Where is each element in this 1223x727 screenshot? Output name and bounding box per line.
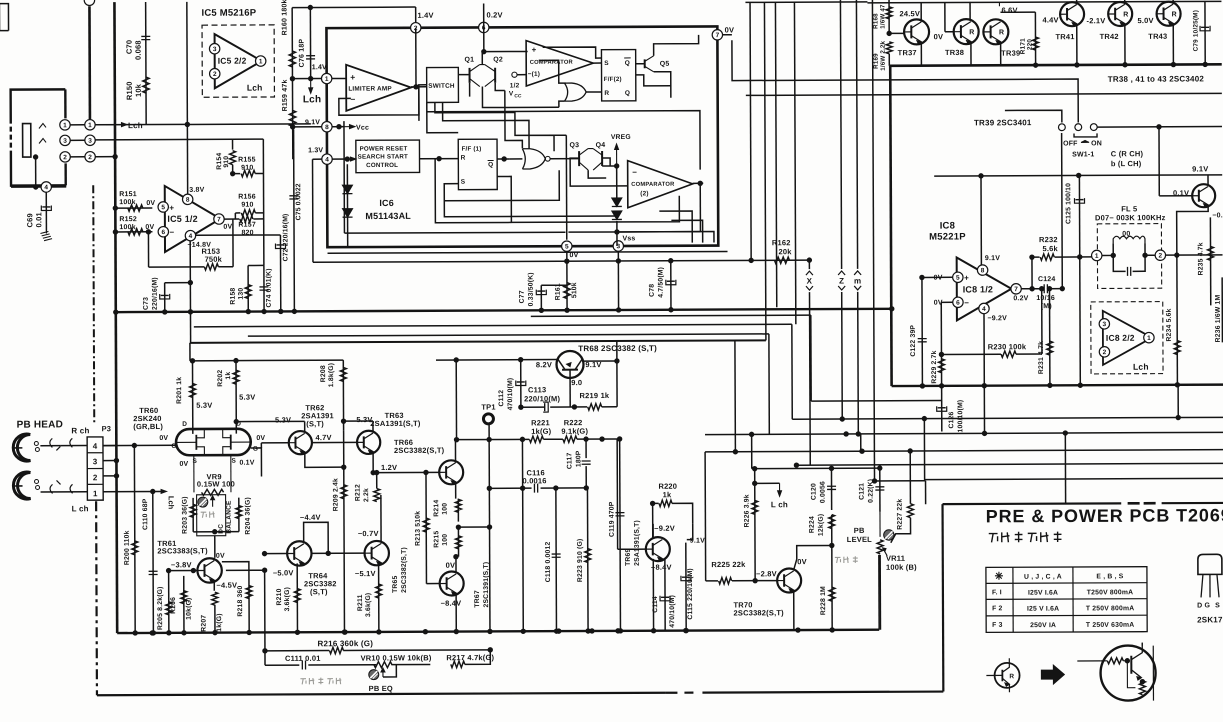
- svg-text:R154: R154: [216, 153, 223, 170]
- svg-text:00: 00: [1122, 231, 1130, 238]
- or gate: [564, 83, 586, 101]
- pin 1 conn: [85, 120, 95, 130]
- pot VR9: [193, 455, 195, 492]
- resistor R200 110k: [133, 445, 136, 632]
- svg-text:R: R: [1172, 11, 1177, 18]
- svg-text:−0.: −0.: [1212, 212, 1223, 219]
- wire thick supply rail: [889, 64, 1221, 65]
- svg-text:IC8: IC8: [940, 220, 955, 231]
- pin 1: [1144, 332, 1154, 342]
- wire: [1177, 385, 1179, 418]
- svg-text:−4.5V: −4.5V: [216, 581, 237, 590]
- diode pair pin4: [346, 164, 348, 247]
- transistor TR68: [556, 351, 583, 378]
- resistor R158 130: [248, 264, 264, 266]
- svg-text:R227 22k: R227 22k: [897, 499, 904, 530]
- svg-text:2: 2: [213, 71, 217, 78]
- resistor R215 100: [455, 536, 461, 549]
- svg-text:Q: Q: [625, 60, 630, 67]
- resistor R227 22k: [909, 451, 911, 504]
- svg-text:R158: R158: [230, 288, 237, 305]
- svg-text:F. I: F. I: [992, 589, 1002, 596]
- svg-text:20k: 20k: [779, 247, 793, 256]
- svg-text:2: 2: [1159, 253, 1163, 260]
- wire: [11, 186, 41, 188]
- pin 1 FL5: [1092, 250, 1102, 260]
- svg-text:VR10 0.15W 10k(B): VR10 0.15W 10k(B): [361, 653, 432, 662]
- capacitor C126 100/10(M): [941, 386, 943, 432]
- resistor R224 12k(G): [829, 515, 835, 529]
- wire pin7 out: [1021, 288, 1040, 290]
- wire TR61 collector emitter: [213, 558, 215, 561]
- wire: [70, 156, 85, 158]
- capacitor C112 470/10(M): [520, 360, 522, 407]
- wire b line: [732, 39, 1078, 124]
- svg-text:R205 8.2k(G): R205 8.2k(G): [157, 586, 164, 630]
- svg-text:4.7/50(M): 4.7/50(M): [658, 267, 665, 298]
- svg-text:250V IA: 250V IA: [1030, 622, 1056, 629]
- svg-text:5: 5: [565, 244, 569, 251]
- transistor TR39: [983, 19, 1008, 44]
- svg-text:(2): (2): [640, 190, 648, 197]
- transistor equivalence big: [1100, 645, 1155, 700]
- package 2SK17 drawing: [1198, 554, 1222, 574]
- pin 8: [980, 176, 982, 265]
- svg-text:1k(G): 1k(G): [531, 427, 552, 436]
- pin 6: [953, 297, 963, 307]
- svg-text:R212: R212: [355, 484, 362, 501]
- svg-text:1: 1: [325, 76, 329, 83]
- svg-text:R208: R208: [320, 365, 327, 382]
- svg-text:C124: C124: [1038, 276, 1056, 283]
- svg-text:R: R: [461, 155, 466, 162]
- net X line: [808, 260, 810, 269]
- wire 9.1V branch: [687, 524, 693, 540]
- transistor TR64: [287, 541, 312, 566]
- wire Q5 emitter: [654, 72, 671, 98]
- wire head row3: [95, 138, 232, 141]
- transistor TR61: [197, 558, 222, 583]
- svg-text:0V: 0V: [216, 553, 225, 560]
- svg-text:1.4V: 1.4V: [417, 11, 433, 20]
- svg-text:C70: C70: [125, 40, 134, 54]
- svg-text:220/10(M): 220/10(M): [524, 394, 560, 403]
- svg-text:1: 1: [1147, 335, 1151, 342]
- svg-text:R232: R232: [1039, 235, 1058, 244]
- wire TR69 base: [618, 548, 646, 550]
- pin 8: [322, 122, 332, 132]
- resistor R213 510k: [425, 472, 427, 583]
- svg-text:C122 39P: C122 39P: [910, 325, 917, 357]
- wire pin4 row: [332, 158, 348, 160]
- resistor R205 8.2k(G): [168, 571, 170, 633]
- svg-text:R228 1M: R228 1M: [820, 586, 827, 615]
- label pcb kana: [989, 533, 998, 535]
- svg-text:T 250V 630mA: T 250V 630mA: [1086, 622, 1135, 629]
- svg-text:100: 100: [442, 503, 449, 515]
- svg-text:Q2: Q2: [493, 56, 503, 63]
- diode pair comp2: [616, 166, 618, 198]
- wire prc to ff1: [420, 158, 459, 160]
- capacitor C79 10/25(M): [1204, 1, 1206, 64]
- svg-text:R229 2.7k: R229 2.7k: [931, 350, 938, 383]
- wire thick mid right: [892, 385, 1223, 386]
- svg-text:LIMITER AMP: LIMITER AMP: [348, 85, 392, 92]
- svg-text:Lch: Lch: [167, 496, 176, 510]
- svg-text:R201 1k: R201 1k: [176, 377, 183, 404]
- pin 4 head: [41, 182, 51, 192]
- svg-text:470/10(M): 470/10(M): [669, 595, 676, 628]
- wire pin4 drop: [983, 314, 986, 434]
- wire TR64-TR65 base link: [312, 552, 365, 554]
- capacitor C122 39P: [921, 277, 923, 385]
- pin 3: [1099, 319, 1109, 329]
- border right: [941, 504, 944, 691]
- svg-text:180P: 180P: [575, 450, 582, 467]
- svg-text:ON: ON: [1091, 140, 1102, 147]
- svg-text:C72 220/16(M): C72 220/16(M): [282, 213, 289, 261]
- svg-text:8.2V: 8.2V: [536, 360, 552, 369]
- svg-text:C69: C69: [25, 213, 34, 227]
- svg-text:−2.8V: −2.8V: [756, 569, 777, 578]
- resistor R235 4.7k: [1209, 217, 1211, 305]
- svg-text:1: 1: [63, 122, 67, 129]
- svg-text:3: 3: [63, 138, 67, 145]
- svg-text:C115 220/10(M): C115 220/10(M): [687, 568, 694, 620]
- svg-text:Q5: Q5: [660, 61, 670, 68]
- svg-text:R: R: [1009, 673, 1014, 680]
- svg-text:3: 3: [93, 457, 98, 466]
- svg-text:−: −: [169, 228, 174, 237]
- svg-text:2: 2: [88, 154, 92, 161]
- capacitor C70 0.068: [141, 35, 150, 37]
- svg-text:Q1: Q1: [464, 57, 474, 64]
- resistor R202 1k: [235, 361, 237, 434]
- svg-text:TR39: TR39: [1001, 49, 1020, 58]
- svg-text:(GR,BL): (GR,BL): [133, 422, 163, 431]
- svg-text:0.22(K): 0.22(K): [868, 479, 875, 503]
- resistor R159 47k: [289, 110, 295, 126]
- svg-text:TR39 2SC3401: TR39 2SC3401: [974, 118, 1032, 127]
- svg-text:TR41: TR41: [1055, 32, 1074, 41]
- svg-text:3: 3: [88, 138, 92, 145]
- svg-text:5: 5: [161, 204, 165, 211]
- svg-text:C119 470P: C119 470P: [609, 501, 616, 537]
- svg-text:R209 2.4k: R209 2.4k: [333, 478, 340, 511]
- IC6 internal mesh: [427, 102, 529, 149]
- svg-text:1.8k(G): 1.8k(G): [328, 363, 335, 387]
- svg-text:5.3V: 5.3V: [356, 415, 372, 424]
- svg-text:P3: P3: [102, 424, 112, 433]
- svg-text:4: 4: [325, 156, 329, 163]
- svg-text:1: 1: [93, 489, 98, 498]
- transistor TR38: [954, 19, 979, 44]
- svg-text:R168: R168: [872, 13, 879, 29]
- screw VR11: [884, 530, 894, 540]
- resistor R226 3.9k: [754, 469, 756, 581]
- svg-text:0V: 0V: [797, 557, 807, 566]
- head R: [13, 434, 30, 461]
- pin 2: [1099, 347, 1109, 357]
- svg-text:TR38 , 41 to 43 2SC3402: TR38 , 41 to 43 2SC3402: [1108, 74, 1205, 83]
- resistor R228 1M: [829, 587, 835, 601]
- wire R222 out corner: [616, 439, 618, 549]
- svg-text:R214: R214: [433, 500, 440, 517]
- wire TR61 base: [169, 570, 198, 572]
- svg-text:0.1V: 0.1V: [239, 460, 254, 467]
- svg-text:C (R CH): C (R CH): [1111, 149, 1144, 158]
- svg-text:R215: R215: [433, 531, 440, 548]
- wire R151 row: [115, 207, 152, 209]
- wire P3-1 out: [103, 490, 160, 492]
- svg-text:2SC3383(S,T): 2SC3383(S,T): [157, 546, 208, 555]
- wire: [411, 86, 427, 88]
- wire: [291, 8, 294, 160]
- svg-text:Lch: Lch: [128, 121, 143, 130]
- svg-text:0V: 0V: [223, 224, 232, 231]
- capacitor C118 0.0012: [555, 488, 558, 631]
- svg-text:R217 4.7k(G): R217 4.7k(G): [446, 653, 494, 662]
- label PB EQ: [300, 678, 306, 680]
- svg-text:C112: C112: [498, 390, 505, 407]
- capacitor C114 470/10(M): [664, 559, 666, 631]
- svg-text:2SC3382(S,T): 2SC3382(S,T): [401, 547, 408, 593]
- svg-text:R152: R152: [119, 216, 137, 223]
- svg-text:R235 4.7k: R235 4.7k: [1197, 242, 1204, 275]
- resistor R229 2.7k: [941, 301, 952, 303]
- svg-text:1.2V: 1.2V: [381, 463, 397, 472]
- svg-text:8: 8: [981, 267, 985, 274]
- head L: [13, 472, 30, 499]
- svg-text:CC: CC: [514, 93, 522, 99]
- svg-text:+: +: [350, 72, 355, 82]
- svg-text:C121: C121: [859, 483, 866, 500]
- capacitor C121 0.22(K): [879, 468, 881, 512]
- wire: [186, 2, 189, 125]
- wire or to ff2 R: [586, 91, 601, 93]
- resistor R154 910: [230, 151, 236, 165]
- wire TR67 emitter: [455, 593, 457, 631]
- svg-text:0V: 0V: [179, 461, 188, 468]
- border top: [943, 502, 1122, 505]
- svg-text:TR67: TR67: [474, 590, 481, 607]
- op-amp IC8 1/2: [957, 257, 1012, 320]
- svg-text:2SC3382(S,T): 2SC3382(S,T): [394, 446, 445, 455]
- svg-text:Q4: Q4: [596, 142, 606, 149]
- transistor equivalence small: [995, 663, 1020, 688]
- svg-text:+: +: [532, 45, 537, 54]
- wire switch to Q1: [458, 74, 468, 76]
- svg-text:R: R: [999, 29, 1004, 36]
- svg-text:Lch: Lch: [247, 83, 263, 93]
- svg-text:1.3V: 1.3V: [308, 147, 323, 154]
- capacitor C110 68P: [152, 492, 155, 633]
- pin 2 head: [60, 152, 70, 162]
- svg-text:PB EQ: PB EQ: [369, 684, 393, 693]
- svg-text:R231 4.7k: R231 4.7k: [1038, 341, 1045, 374]
- svg-text:R211: R211: [357, 594, 364, 611]
- wire Q5 collector: [654, 35, 699, 56]
- flip-flop F/F(2): [601, 50, 635, 101]
- wire: [1064, 433, 1066, 504]
- shield dash line: [93, 185, 94, 422]
- svg-text:9.0: 9.0: [571, 378, 582, 387]
- pin 3: [209, 44, 219, 54]
- svg-text:0V: 0V: [446, 561, 456, 570]
- pin 5: [953, 272, 963, 282]
- label DC balance: [201, 511, 207, 513]
- svg-text:4.7V: 4.7V: [316, 433, 332, 442]
- op-amp LIMITER AMP: [346, 64, 411, 110]
- balance box: [197, 495, 226, 536]
- svg-text:2SC3382(S,T): 2SC3382(S,T): [733, 608, 784, 617]
- screw VR10: [369, 670, 379, 680]
- svg-text:R156: R156: [238, 194, 256, 201]
- wire P3-3 out: [103, 460, 116, 462]
- svg-text:220: 220: [1027, 39, 1034, 51]
- wire: [1061, 133, 1064, 289]
- svg-text:R230 100k: R230 100k: [988, 342, 1027, 351]
- resistor R207 1k(G): [212, 592, 218, 605]
- pin 7: [1011, 284, 1021, 294]
- wire ladder: [232, 139, 234, 149]
- svg-text:7: 7: [716, 32, 720, 39]
- pin 4: [979, 303, 989, 313]
- wire R221 row: [455, 438, 529, 440]
- svg-text:100k: 100k: [119, 224, 135, 231]
- svg-text:R: R: [969, 29, 974, 36]
- resistor R152 100k: [128, 229, 143, 235]
- svg-text:0.2V: 0.2V: [486, 10, 502, 19]
- svg-text:9.1V: 9.1V: [305, 119, 320, 126]
- capacitor C78 4.7/50(M): [670, 261, 672, 310]
- svg-text:C77: C77: [519, 290, 526, 303]
- wire TR64 collector: [304, 522, 329, 553]
- svg-text:Vss: Vss: [622, 235, 635, 242]
- svg-text:1/2: 1/2: [510, 82, 520, 89]
- label PB level: [835, 556, 841, 558]
- svg-text:R218 360: R218 360: [237, 586, 244, 617]
- vertical bus x752: [750, 2, 751, 260]
- svg-text:910: 910: [223, 156, 230, 168]
- svg-text:PRE & POWER PCB T2069A: PRE & POWER PCB T2069A: [986, 505, 1223, 526]
- wire gate left: [103, 444, 176, 446]
- wire: [875, 480, 926, 482]
- svg-text:−9.2V: −9.2V: [988, 315, 1008, 322]
- svg-text:Q: Q: [488, 162, 493, 169]
- wire top rail: [292, 6, 415, 9]
- svg-text:C126: C126: [948, 411, 955, 428]
- svg-text:2SC1391(S,T): 2SC1391(S,T): [483, 562, 490, 608]
- svg-text:C78: C78: [649, 284, 656, 297]
- svg-text:C110 68P: C110 68P: [142, 498, 149, 530]
- svg-text:3.6k(G): 3.6k(G): [365, 593, 372, 617]
- transistor TR70: [777, 568, 801, 592]
- resistor R156 910: [235, 212, 240, 214]
- wire: [88, 6, 91, 119]
- svg-text:1: 1: [1095, 253, 1099, 260]
- screw VR9: [198, 497, 208, 507]
- wire P3-4 out: [103, 445, 116, 447]
- wire 5.3V rail: [190, 359, 343, 362]
- svg-text:0.01: 0.01: [34, 212, 43, 227]
- capacitor C77 0.33/50(K): [540, 285, 542, 310]
- pin 3 conn: [85, 135, 95, 145]
- resistor R160 180k: [289, 51, 295, 67]
- capacitor C75 0.0022: [293, 129, 296, 311]
- switch SW1-1: [1005, 110, 1062, 123]
- transistor TR66: [439, 460, 463, 484]
- svg-text:5.3V: 5.3V: [239, 393, 255, 402]
- wire bus left vertical: [114, 2, 117, 633]
- wire TR70 collector: [794, 545, 832, 570]
- svg-text:VREG: VREG: [611, 134, 631, 141]
- svg-text:I25V I.6A: I25V I.6A: [1028, 590, 1058, 597]
- svg-text:−0.7V: −0.7V: [358, 529, 379, 538]
- wire pin3 down: [617, 251, 619, 310]
- svg-text:SEARCH START: SEARCH START: [358, 153, 408, 160]
- svg-text:−5.0V: −5.0V: [273, 568, 294, 577]
- pin 1: [255, 56, 265, 66]
- wire line A thick: [116, 309, 891, 312]
- svg-text:F/F (1): F/F (1): [462, 146, 482, 153]
- svg-text:0.0056: 0.0056: [820, 481, 827, 503]
- svg-text:C120: C120: [811, 483, 818, 500]
- svg-text:10/16: 10/16: [1036, 295, 1055, 302]
- border bottom: [97, 693, 665, 695]
- svg-text:910: 910: [241, 202, 253, 209]
- svg-text:-2.1V: -2.1V: [1087, 16, 1106, 25]
- svg-text:LEVEL: LEVEL: [847, 535, 872, 544]
- svg-text:IC5 1/2: IC5 1/2: [167, 214, 197, 224]
- svg-text:Q3: Q3: [569, 142, 579, 149]
- svg-text:V: V: [509, 90, 514, 97]
- transistor TR43: [1157, 2, 1181, 26]
- svg-text:Q: Q: [625, 90, 630, 97]
- pin 6: [158, 227, 168, 237]
- wire mesh s1: [531, 315, 811, 316]
- fuse table: [986, 567, 1147, 633]
- wire FL5 out: [1166, 254, 1223, 256]
- ground: [45, 230, 47, 233]
- wire comp2 out: [693, 182, 704, 184]
- svg-text:R169: R169: [873, 53, 880, 69]
- svg-text:BALANCE: BALANCE: [226, 500, 233, 534]
- test point TP1: [483, 414, 493, 424]
- wire: [860, 434, 862, 451]
- svg-text:100k (B): 100k (B): [886, 563, 917, 572]
- pin 1: [321, 73, 331, 83]
- resistor R157 820: [224, 218, 239, 220]
- svg-text:470/10(M): 470/10(M): [507, 378, 514, 411]
- svg-text:4: 4: [44, 184, 48, 191]
- svg-text:E , B , S: E , B , S: [1096, 573, 1123, 580]
- resistor R153 750k feedback: [147, 232, 149, 267]
- wire mesh s3: [248, 334, 769, 336]
- pin 4: [322, 154, 332, 164]
- svg-text:Lch: Lch: [303, 94, 321, 105]
- svg-text:910: 910: [241, 165, 253, 172]
- svg-text:1k: 1k: [225, 372, 232, 380]
- svg-text:D: D: [182, 421, 187, 428]
- wire TR62 emitter collector: [304, 421, 306, 431]
- node 1.4V: [308, 76, 313, 81]
- resistor R212 2.2k: [374, 489, 380, 502]
- svg-text:R225 22k: R225 22k: [711, 560, 746, 569]
- capacitor C120 0.0056: [830, 468, 832, 510]
- wire 9.1V rail: [934, 175, 1222, 176]
- svg-text:T 250V 800mA: T 250V 800mA: [1086, 605, 1135, 612]
